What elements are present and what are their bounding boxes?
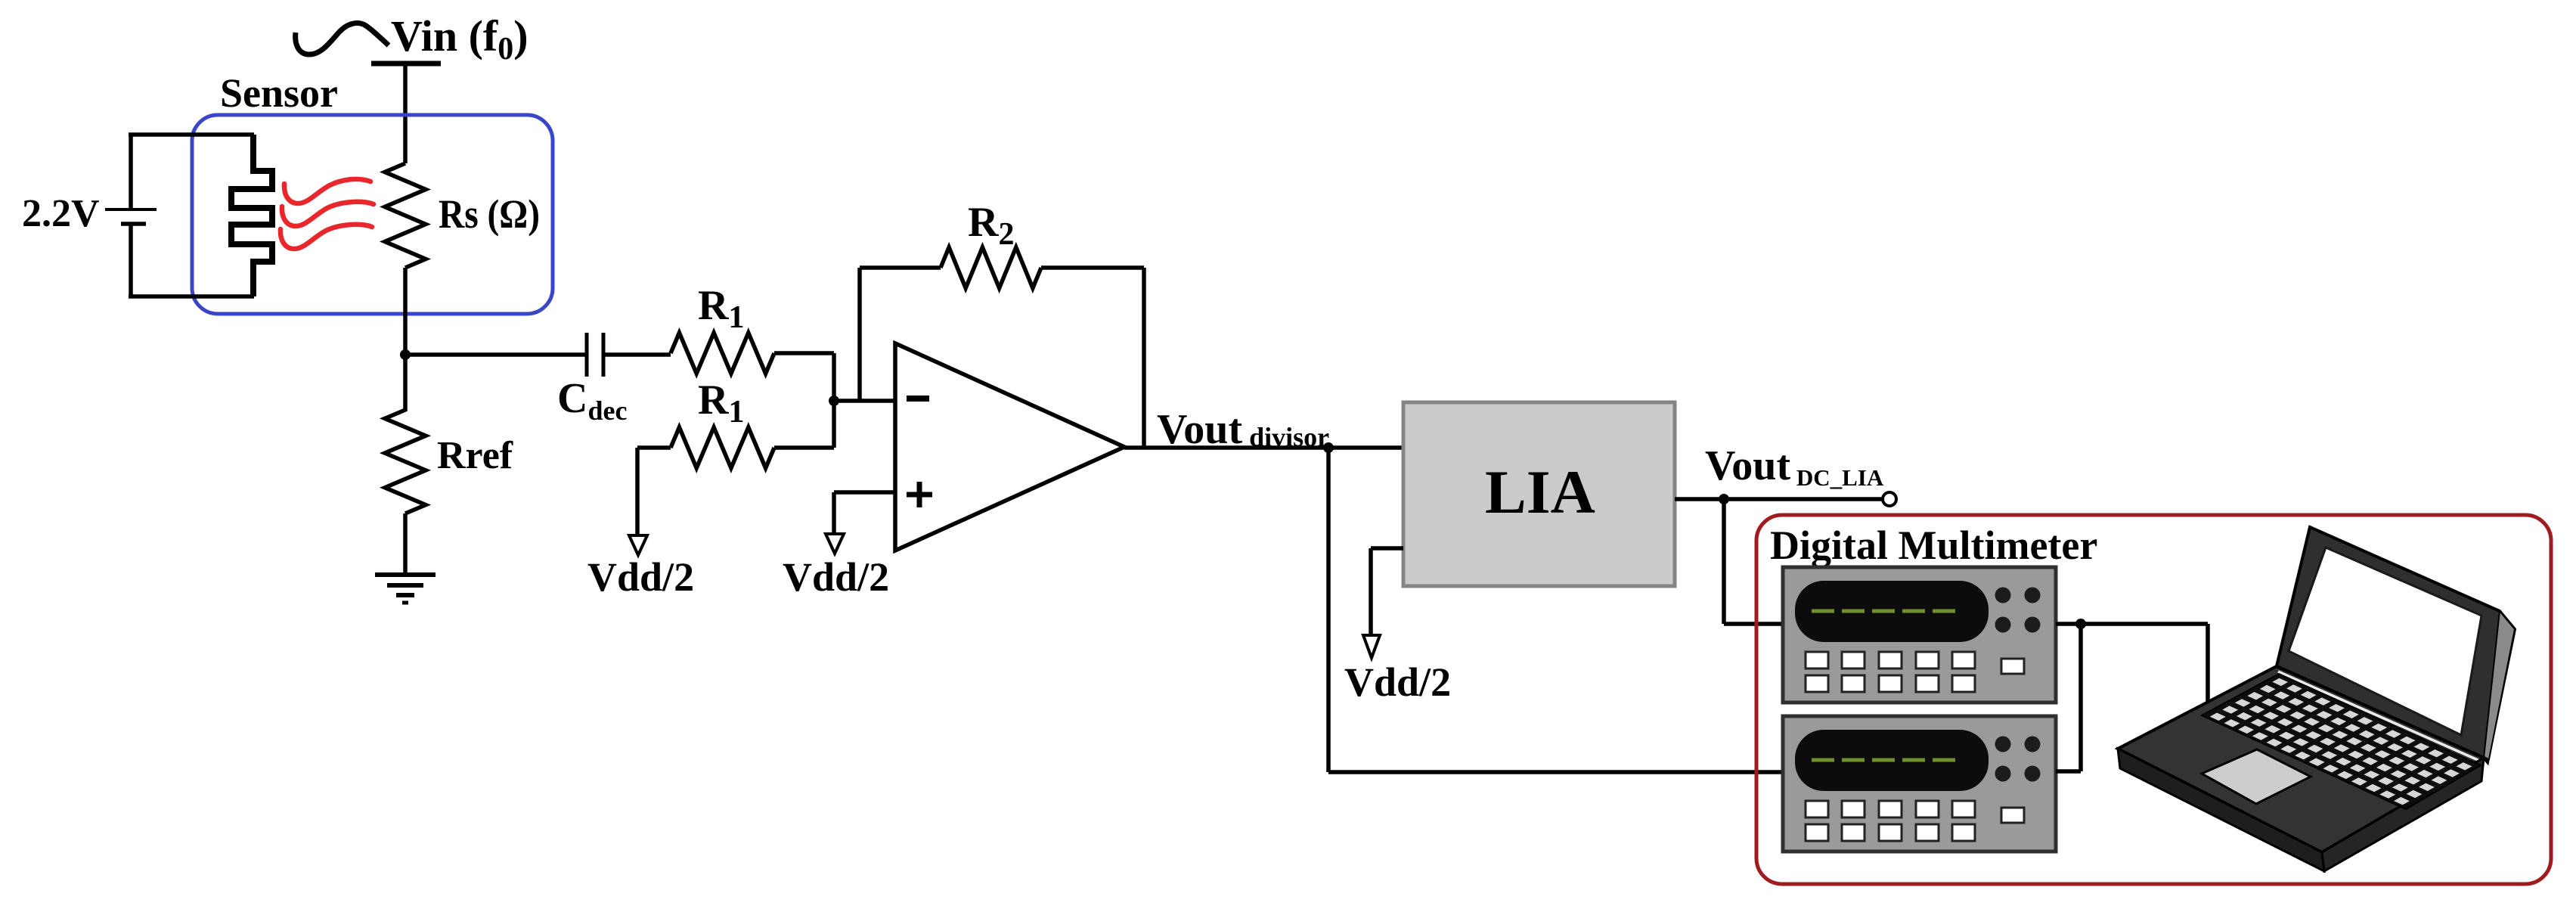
Vdd/2 source arrow (LIA) — [1363, 635, 1380, 658]
wire R1 bottom left to Vdd/2 — [637, 445, 671, 450]
node inverting input dot — [829, 396, 839, 406]
Vdd/2 source arrow (left) — [629, 535, 647, 555]
wire Rref to ground — [403, 513, 408, 575]
digital multimeter unit 1 (upper) — [1783, 567, 2056, 703]
ground — [375, 572, 436, 577]
LIA block — [1403, 402, 1675, 586]
op-amp U1 — [895, 343, 1124, 551]
svg-text:Digital Multimeter: Digital Multimeter — [1770, 523, 2097, 568]
resistor R1 bottom — [671, 427, 774, 468]
svg-text:2.2V: 2.2V — [22, 192, 100, 235]
battery B1 — [105, 208, 157, 211]
sensor box (blue rounded) — [192, 115, 553, 314]
wire node to Rref — [403, 355, 408, 411]
wire: Vin down to Rs — [403, 64, 408, 163]
digital multimeter unit 2 (lower) — [1783, 716, 2056, 852]
node junction dot — [400, 349, 411, 360]
node dot Vout_divisor — [1323, 442, 1334, 453]
wire: Vin terminal bar — [371, 61, 441, 67]
node dot DMM output — [2075, 619, 2086, 629]
wire Vout_divisor down to lower DMM — [1326, 448, 1331, 772]
wire node down to lower DMM — [2078, 624, 2083, 771]
svg-text:Sensor: Sensor — [220, 70, 338, 116]
svg-text:LIA: LIA — [1485, 458, 1595, 526]
open terminal circle — [1883, 492, 1896, 506]
wire node to op-amp minus — [834, 399, 895, 403]
svg-text:Vdd/2: Vdd/2 — [1344, 659, 1451, 705]
heater element (comb) — [231, 135, 272, 296]
wire Rs to node — [403, 268, 408, 355]
wire feedback up — [857, 268, 862, 401]
resistor R2 — [941, 247, 1041, 288]
svg-text:Vdd/2: Vdd/2 — [783, 554, 889, 600]
op-amp minus pin mark — [907, 396, 929, 402]
wire R2 to output — [1041, 265, 1144, 270]
heat waves (red) — [284, 179, 370, 203]
resistor Rref — [385, 410, 426, 513]
wire R1 to inverting node — [774, 351, 834, 355]
wire R1 bottom right — [774, 445, 834, 450]
laptop (PC) — [2277, 527, 2515, 762]
wire LIA Vdd/2 stub — [1371, 546, 1403, 551]
node dot LIA output — [1719, 494, 1729, 504]
svg-text:Rref: Rref — [437, 434, 513, 477]
svg-text:Rs (Ω): Rs (Ω) — [439, 191, 540, 237]
digital multimeter red enclosure — [1756, 515, 2551, 884]
wire battery loop — [129, 135, 133, 208]
wire upper DMM to laptop — [2056, 622, 2208, 626]
wire Cdec to R1 — [603, 352, 671, 357]
svg-text:Vdd/2: Vdd/2 — [587, 554, 694, 600]
op-amp plus pin mark — [907, 492, 932, 498]
capacitor Cdec — [585, 333, 589, 377]
node Vin label with sine squiggle — [296, 23, 389, 54]
wire plus input — [834, 490, 895, 495]
wire op-amp output — [1124, 445, 1403, 450]
wire LIA out down to upper DMM — [1722, 499, 1726, 624]
wire node to Cdec — [405, 352, 585, 357]
resistor R1 top — [671, 333, 774, 374]
resistor Rs — [385, 163, 426, 268]
Vdd/2 source arrow (op-amp plus) — [826, 534, 844, 554]
wire LIA output — [1675, 497, 1884, 501]
